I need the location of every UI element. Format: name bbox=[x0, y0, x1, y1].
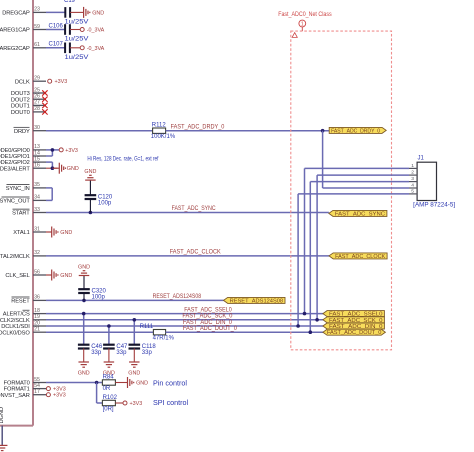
wire C118 to bus bbox=[133, 320, 135, 345]
pin 15 MODE2/GPIO2 bbox=[0, 156, 46, 166]
ground GND (XTAL1) bbox=[46, 227, 72, 238]
svg-text:XTAL1: XTAL1 bbox=[13, 230, 29, 236]
svg-text:+3V3: +3V3 bbox=[65, 148, 78, 154]
wire to R102 bbox=[97, 402, 103, 404]
svg-text:GND: GND bbox=[136, 381, 148, 387]
port flag FAST_ADC_CLOCK bbox=[329, 253, 387, 260]
svg-text:55: 55 bbox=[34, 377, 40, 383]
svg-text:21: 21 bbox=[34, 327, 40, 333]
svg-text:GND: GND bbox=[60, 230, 72, 236]
wire J1 pin2 bbox=[317, 174, 409, 176]
junction C47 bbox=[107, 324, 111, 328]
power port +3V3 (FORMAT1) bbox=[46, 387, 65, 393]
ground GND below C47 bbox=[103, 362, 115, 376]
wire SYNC_OUT bbox=[46, 199, 52, 201]
svg-text:35: 35 bbox=[34, 182, 40, 188]
svg-text:C107: C107 bbox=[49, 42, 64, 48]
capacitor C107 1u/25V bbox=[49, 42, 89, 61]
resistor R112 100K/1% bbox=[151, 123, 176, 141]
svg-text:DCLK: DCLK bbox=[15, 79, 30, 85]
no-connect X DOUT0 bbox=[42, 109, 47, 114]
svg-text:Fast_ADC0_Net Class: Fast_ADC0_Net Class bbox=[278, 11, 332, 18]
ground GND (CLK_SEL) bbox=[46, 270, 72, 281]
junction GPIO3 bbox=[51, 166, 55, 170]
pin 23 DREGCAP bbox=[2, 7, 46, 17]
svg-text:31: 31 bbox=[34, 226, 40, 232]
svg-text:R102: R102 bbox=[103, 395, 118, 401]
svg-text:5: 5 bbox=[411, 189, 414, 195]
pin 32 XTAL2/MCLK bbox=[0, 250, 46, 260]
ground GND below C46 bbox=[78, 362, 90, 376]
ground GND (GPIO2/GPIO3) bbox=[52, 163, 78, 174]
svg-text:GND: GND bbox=[78, 264, 90, 270]
wire RESET to flag bbox=[46, 299, 224, 301]
svg-text:16: 16 bbox=[34, 163, 40, 169]
svg-text:18: 18 bbox=[34, 308, 40, 314]
svg-text:1u/25V: 1u/25V bbox=[65, 36, 89, 42]
pin 59 AREG1CAP bbox=[0, 24, 46, 34]
svg-text:+3V3: +3V3 bbox=[53, 387, 66, 393]
connector J1 AMP 87224-5 bbox=[413, 155, 455, 208]
svg-text:FAST_ADC_SYNC: FAST_ADC_SYNC bbox=[335, 211, 385, 217]
pin 27 DOUT1 bbox=[11, 100, 46, 110]
wire GPIO3 to GND bbox=[46, 167, 57, 169]
pin 26 DOUT2 bbox=[11, 94, 46, 104]
svg-text:GND: GND bbox=[67, 166, 79, 172]
ground GND (DGND) bbox=[0, 445, 7, 450]
pin 54 FORMAT1 bbox=[4, 383, 46, 393]
svg-text:R112: R112 bbox=[152, 123, 167, 129]
resistor R102 [0R] bbox=[102, 395, 117, 413]
svg-text:33p: 33p bbox=[142, 350, 153, 356]
svg-text:14: 14 bbox=[34, 150, 40, 156]
wire J1 pin3 down to DOUT_0 bbox=[309, 182, 311, 333]
svg-text:GND: GND bbox=[92, 10, 104, 16]
svg-text:23: 23 bbox=[34, 7, 40, 13]
svg-text:+3V3: +3V3 bbox=[55, 79, 68, 85]
svg-text:1u/25V: 1u/25V bbox=[65, 55, 89, 61]
capacitor C320 100p bbox=[78, 289, 106, 301]
svg-text:17: 17 bbox=[34, 389, 40, 395]
pin 20 DCLK1/SDI bbox=[1, 320, 46, 330]
svg-text:SPI control: SPI control bbox=[153, 398, 189, 407]
wire J1 pin4 bbox=[323, 187, 409, 189]
svg-text:FORMAT0: FORMAT0 bbox=[4, 381, 30, 387]
svg-text:33p: 33p bbox=[116, 350, 127, 356]
svg-text:RESET: RESET bbox=[11, 299, 30, 305]
pin 5 J1 bbox=[409, 189, 417, 195]
svg-text:Hi Res, 128 Dec. rate, G=1, ex: Hi Res, 128 Dec. rate, G=1, ext ref bbox=[87, 157, 158, 163]
svg-text:FAST_ADC_CLOCK: FAST_ADC_CLOCK bbox=[335, 254, 386, 260]
svg-text:DOUT1: DOUT1 bbox=[11, 104, 30, 110]
wire R102 to +3V3 bbox=[115, 402, 123, 404]
pin 30 DRDY bbox=[14, 125, 47, 135]
pin 33 START bbox=[12, 207, 46, 217]
svg-text:-0_3VA: -0_3VA bbox=[87, 46, 105, 52]
port flag RESET_ADS124S08 bbox=[224, 297, 286, 304]
resistor R111 47R/1% bbox=[140, 324, 175, 342]
svg-text:32: 32 bbox=[34, 250, 40, 256]
svg-text:28: 28 bbox=[34, 106, 40, 112]
svg-text:GND: GND bbox=[84, 169, 96, 175]
svg-text:RESET_ADS124S08: RESET_ADS124S08 bbox=[230, 298, 284, 304]
pin 14 MODE1/GPIO1 bbox=[0, 150, 46, 160]
no-connect X DOUT3 bbox=[42, 90, 47, 95]
junction SCK_0 bbox=[315, 318, 319, 322]
svg-text:-0_3VA: -0_3VA bbox=[87, 28, 105, 34]
junction GPIO0 bbox=[51, 148, 55, 152]
wire DRDY to R112 bbox=[46, 130, 153, 132]
wire GPIO0 to +3V3 bbox=[46, 149, 59, 151]
svg-text:FAST_ADC_DIN_0: FAST_ADC_DIN_0 bbox=[183, 320, 233, 326]
svg-text:20: 20 bbox=[34, 320, 40, 326]
svg-text:34: 34 bbox=[34, 195, 40, 201]
svg-text:29: 29 bbox=[34, 76, 40, 82]
junction DOUT_0 bbox=[309, 330, 313, 334]
pin 61 AREG2CAP bbox=[0, 42, 46, 52]
pin 25 DOUT3 bbox=[11, 87, 46, 97]
svg-text:4: 4 bbox=[411, 183, 414, 189]
svg-text:61: 61 bbox=[34, 42, 40, 48]
svg-text:3: 3 bbox=[411, 176, 414, 182]
svg-text:GND: GND bbox=[78, 370, 90, 376]
svg-text:DCLK0/DSO: DCLK0/DSO bbox=[0, 330, 30, 336]
wire J1 pin1 down to SSEL0 bbox=[304, 168, 306, 313]
no-connect X DOUT2 bbox=[42, 97, 47, 102]
port flag FAST_ADC_SYNC bbox=[329, 210, 387, 217]
wire CLK_SEL to GND bbox=[46, 274, 52, 276]
svg-text:Pin control: Pin control bbox=[153, 378, 187, 387]
svg-text:FAST_ADC_SYNC: FAST_ADC_SYNC bbox=[172, 206, 217, 212]
junction DIN_0 bbox=[296, 324, 300, 328]
svg-text:47R/1%: 47R/1% bbox=[153, 336, 175, 342]
svg-text:C19: C19 bbox=[64, 0, 76, 4]
port flag FAST_ADC_SSEL0 bbox=[323, 311, 385, 318]
pin 21 DCLK0/DSO bbox=[0, 327, 46, 337]
pin 35 SYNC_IN bbox=[6, 182, 46, 192]
svg-text:FAST_ADC_DRDY_0: FAST_ADC_DRDY_0 bbox=[171, 124, 225, 130]
pin 3 J1 bbox=[409, 176, 417, 182]
pin 31 XTAL1 bbox=[13, 226, 46, 236]
svg-text:2: 2 bbox=[411, 170, 414, 176]
svg-text:J1: J1 bbox=[418, 155, 425, 161]
svg-text:SYNC_OUT: SYNC_OUT bbox=[0, 199, 30, 205]
wire SYNC_IN-SYNC_OUT tie bbox=[51, 188, 53, 201]
svg-text:DRDY: DRDY bbox=[14, 129, 30, 135]
svg-text:DREGCAP: DREGCAP bbox=[2, 11, 30, 17]
wire SCLK to flag SCK_0 bbox=[46, 319, 323, 321]
wire J1 pin3 bbox=[310, 181, 409, 183]
wire DGND pin down bbox=[1, 426, 3, 446]
svg-text:AREG1CAP: AREG1CAP bbox=[0, 28, 30, 34]
pin 17 CONVST_SAR bbox=[0, 389, 46, 399]
svg-text:FAST_ADC_SSEL0: FAST_ADC_SSEL0 bbox=[184, 307, 232, 313]
svg-text:1u/25V: 1u/25V bbox=[65, 19, 89, 25]
wire R112 to flag FAST_ADC_DRDY_0 bbox=[166, 130, 330, 132]
wire GPIO2-ALERT tie bbox=[51, 162, 53, 168]
power port -0_3VA (AREG2CAP) bbox=[80, 46, 104, 52]
svg-text:DOUT2: DOUT2 bbox=[11, 97, 30, 103]
port flag FAST_ADC_DIN_0 bbox=[323, 323, 385, 330]
wire SDI to flag DIN_0 bbox=[46, 325, 323, 327]
power port +3V3 (DCLK) bbox=[48, 79, 68, 85]
ground GND (DREGCAP) bbox=[70, 7, 104, 18]
resistor R84 0R bbox=[102, 374, 115, 392]
pin 2 J1 bbox=[409, 170, 417, 176]
pin 56 CLK_SEL bbox=[5, 269, 46, 279]
junction DRDY / connector branch bbox=[321, 129, 325, 133]
wire J1 pin5 down to DIN_0 bbox=[297, 194, 299, 326]
no-connect X DOUT1 bbox=[42, 103, 47, 108]
svg-text:DOUT0: DOUT0 bbox=[11, 110, 30, 116]
wire C320 to GND bbox=[83, 276, 85, 290]
svg-text:100p: 100p bbox=[98, 200, 112, 206]
junction C120 on START net bbox=[89, 211, 93, 215]
IC U1 (ADC) body edge bbox=[0, 0, 33, 426]
wire FORMAT0 to R84 bbox=[46, 382, 102, 384]
svg-text:DOUT3: DOUT3 bbox=[11, 91, 30, 97]
wire C47 to bus bbox=[108, 326, 110, 345]
svg-text:AREG2CAP: AREG2CAP bbox=[0, 46, 30, 52]
pin 19 SCLK2/SCLK bbox=[0, 314, 46, 324]
port flag FAST_ADC_SCK_0 bbox=[323, 317, 385, 324]
svg-text:RESET_ADS124S08: RESET_ADS124S08 bbox=[153, 294, 202, 300]
svg-text:100p: 100p bbox=[92, 294, 106, 300]
wire C107 to -0_3VA bbox=[70, 47, 80, 49]
svg-text:DGND: DGND bbox=[0, 407, 5, 423]
svg-text:+3V3: +3V3 bbox=[53, 393, 66, 399]
pin 55 FORMAT0 bbox=[4, 377, 46, 387]
svg-text:1: 1 bbox=[411, 163, 414, 169]
svg-text:START: START bbox=[12, 211, 30, 217]
wire C118 to GND bbox=[133, 349, 135, 363]
svg-text:0R: 0R bbox=[103, 386, 111, 392]
svg-text:19: 19 bbox=[34, 314, 40, 320]
svg-text:FAST_ADC_CLOCK: FAST_ADC_CLOCK bbox=[170, 250, 221, 256]
junction FORMAT0 branch bbox=[95, 381, 99, 385]
junction C320 on RESET net bbox=[82, 299, 86, 303]
svg-text:[0R]: [0R] bbox=[103, 406, 114, 412]
svg-text:C106: C106 bbox=[49, 23, 64, 29]
wire AREG2CAP to C107 bbox=[46, 47, 65, 49]
wire XTAL2/MCLK to flag FAST_ADC_CLOCK bbox=[46, 255, 329, 257]
svg-text:DCLK1/SDI: DCLK1/SDI bbox=[1, 324, 30, 330]
svg-text:26: 26 bbox=[34, 94, 40, 100]
ground GND above C120 bbox=[84, 169, 96, 180]
svg-text:MODE2/GPIO2: MODE2/GPIO2 bbox=[0, 160, 30, 166]
svg-text:R111: R111 bbox=[140, 324, 154, 330]
wire J1 pin1 bbox=[305, 167, 410, 169]
svg-text:56: 56 bbox=[34, 269, 40, 275]
svg-text:15: 15 bbox=[34, 156, 40, 162]
ground GND below C118 bbox=[128, 362, 140, 376]
wire C46 to bus bbox=[83, 314, 85, 346]
power port +3V3 (R102) bbox=[123, 401, 142, 407]
port flag FAST_ADC_DOUT_0 bbox=[323, 329, 386, 336]
pin 29 DCLK bbox=[15, 76, 46, 86]
pin 18 ALERT/CS bbox=[3, 308, 46, 318]
svg-text:30: 30 bbox=[34, 125, 40, 131]
power port +3V3 (CONVST_SAR) bbox=[46, 393, 65, 399]
svg-text:54: 54 bbox=[34, 383, 40, 389]
capacitor C19 1u/25V bbox=[64, 0, 89, 25]
svg-text:1: 1 bbox=[301, 22, 304, 28]
svg-text:+3V3: +3V3 bbox=[130, 401, 143, 407]
wire J1 pin2 down to SCK_0 bbox=[316, 175, 318, 320]
svg-text:ALERT/CS: ALERT/CS bbox=[3, 312, 30, 318]
wire J1 pin4 up to DRDY bbox=[322, 131, 324, 188]
svg-text:FAST_ADC_SCK_0: FAST_ADC_SCK_0 bbox=[182, 314, 233, 320]
pin 34 SYNC_OUT bbox=[0, 195, 46, 205]
svg-text:SCLK2/SCLK: SCLK2/SCLK bbox=[0, 318, 30, 324]
svg-text:33: 33 bbox=[34, 207, 40, 213]
svg-text:27: 27 bbox=[34, 100, 40, 106]
wire GPIO2 stub bbox=[46, 161, 52, 163]
wire J1 pin5 bbox=[298, 193, 409, 195]
svg-text:GND: GND bbox=[128, 370, 140, 376]
svg-text:[AMP 87224-5]: [AMP 87224-5] bbox=[413, 203, 455, 209]
svg-text:59: 59 bbox=[34, 24, 40, 30]
wire R111 to flag DOUT_0 bbox=[166, 331, 324, 333]
svg-text:GND: GND bbox=[60, 273, 72, 279]
svg-text:XTAL2/MCLK: XTAL2/MCLK bbox=[0, 254, 30, 260]
junction C118 bbox=[133, 318, 137, 322]
junction C46 bbox=[82, 312, 86, 316]
ground GND (R84) bbox=[115, 377, 148, 388]
capacitor C46 33p bbox=[78, 344, 103, 356]
net class boundary Fast_ADC0_Net Class bbox=[278, 11, 391, 350]
power port -0_3VA (AREG1CAP) bbox=[80, 28, 104, 34]
svg-text:13: 13 bbox=[34, 144, 40, 150]
wire DREGCAP to C19 bbox=[46, 11, 65, 13]
wire C46 to GND bbox=[83, 349, 85, 363]
wire FORMAT0 down to R102 bbox=[96, 383, 98, 404]
svg-text:33p: 33p bbox=[91, 350, 102, 356]
wire C120 to GND bbox=[89, 180, 91, 195]
pin 13 MODE0/GPIO0 bbox=[0, 144, 46, 154]
svg-text:25: 25 bbox=[34, 87, 40, 93]
svg-text:MODE1/GPIO1: MODE1/GPIO1 bbox=[0, 154, 30, 160]
pin 16 MODE3/ALERT bbox=[0, 163, 46, 173]
svg-text:R84: R84 bbox=[103, 374, 115, 380]
svg-text:MODE3/ALERT: MODE3/ALERT bbox=[0, 166, 30, 172]
capacitor C118 33p bbox=[129, 344, 157, 356]
port flag FAST_ADC_DRDY_0 bbox=[329, 127, 386, 134]
wire C106 to -0_3VA bbox=[70, 29, 80, 31]
svg-text:100K/1%: 100K/1% bbox=[151, 134, 176, 140]
pin 28 DOUT0 bbox=[11, 106, 46, 116]
svg-text:MODE0/GPIO0: MODE0/GPIO0 bbox=[0, 148, 30, 154]
svg-text:CLK_SEL: CLK_SEL bbox=[5, 273, 29, 279]
wire C320 to RESET bbox=[83, 293, 85, 300]
wire C120 to START bbox=[89, 199, 91, 213]
wire SYNC_IN bbox=[46, 187, 52, 189]
wire AREG1CAP to C106 bbox=[46, 29, 65, 31]
svg-text:36: 36 bbox=[34, 295, 40, 301]
svg-text:FAST_ADC_DRDY_0: FAST_ADC_DRDY_0 bbox=[331, 128, 380, 134]
svg-text:FAST_ADC_DOUT_0: FAST_ADC_DOUT_0 bbox=[327, 330, 382, 336]
wire GPIO1 stub bbox=[46, 155, 52, 157]
pin 1 J1 bbox=[409, 163, 417, 169]
wire ALERT/CS to flag SSEL0 bbox=[46, 313, 323, 315]
wire START to flag FAST_ADC_SYNC bbox=[46, 212, 329, 214]
pin 36 RESET bbox=[11, 295, 46, 305]
svg-text:SYNC_IN: SYNC_IN bbox=[6, 186, 30, 192]
junction SSEL0 bbox=[303, 312, 307, 316]
pin 4 J1 bbox=[409, 183, 417, 189]
wire XTAL1 to GND bbox=[46, 231, 52, 233]
svg-text:CONVST_SAR: CONVST_SAR bbox=[0, 393, 30, 399]
wire GPIO0-GPIO1 tie bbox=[51, 150, 53, 156]
capacitor C106 1u/25V bbox=[49, 23, 89, 42]
capacitor C120 100p bbox=[85, 195, 113, 207]
wire C47 to GND bbox=[108, 349, 110, 363]
capacitor C47 33p bbox=[103, 344, 128, 356]
ground GND above C320 bbox=[78, 264, 90, 275]
svg-text:FAST_ADC_DOUT_0: FAST_ADC_DOUT_0 bbox=[183, 326, 238, 332]
wire DSO to R111 bbox=[46, 331, 153, 333]
power port +3V3 (GPIO0/GPIO1) bbox=[59, 148, 78, 154]
svg-text:FORMAT1: FORMAT1 bbox=[4, 387, 30, 393]
